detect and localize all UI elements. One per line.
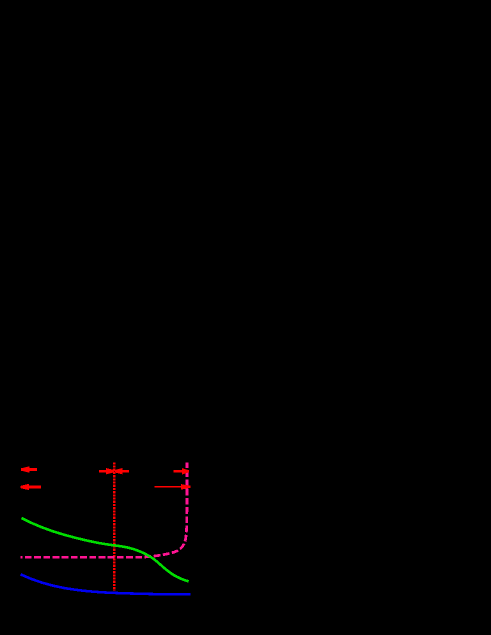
arrow A: left-pointing at left edge, row 1 (21, 466, 37, 472)
arrow C: right-pointing at pink line, row 1 (173, 468, 188, 474)
arrow D: long right-pointing at pink line, row 2 (155, 484, 191, 490)
arrow pair meeting at dotted line, row 1 (99, 468, 129, 474)
arrow B: left-pointing at left edge, row 2 (21, 484, 41, 490)
green curve (22, 518, 189, 581)
red dotted vertical line (113, 462, 115, 591)
pink dashed curve (diverges at cutoff) (21, 462, 187, 557)
blue curve (21, 574, 191, 594)
